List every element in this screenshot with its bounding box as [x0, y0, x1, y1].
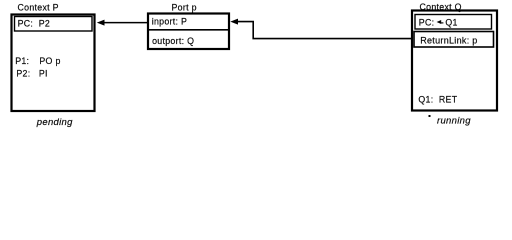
- svg-text:PC:: PC:: [18, 18, 34, 28]
- svg-text:PC:: PC:: [419, 17, 435, 27]
- svg-text:running: running: [437, 116, 471, 127]
- port p row divider: [148, 29, 229, 31]
- svg-text:Q1:: Q1:: [418, 94, 433, 104]
- wire returnlink to port p: [236, 22, 411, 39]
- svg-text:PI: PI: [39, 69, 48, 79]
- speck before running label: [429, 115, 431, 117]
- svg-text:outport: Q: outport: Q: [152, 36, 194, 46]
- svg-text:P1:: P1:: [15, 56, 29, 66]
- PC backward-arrow glyph: [437, 20, 442, 24]
- context Q box: [412, 11, 497, 111]
- context P box: [12, 15, 95, 112]
- svg-text:Q1: Q1: [445, 17, 457, 27]
- svg-text:inport: P: inport: P: [152, 17, 187, 27]
- svg-text:PO p: PO p: [39, 56, 60, 66]
- svg-text:pending: pending: [36, 117, 73, 128]
- svg-text:P2: P2: [39, 18, 50, 28]
- wire inport to context P: [100, 22, 147, 24]
- context Q PC row box: [415, 15, 492, 30]
- context P PC row box: [15, 17, 93, 32]
- svg-text:ReturnLink: p: ReturnLink: p: [420, 36, 477, 46]
- context Q ReturnLink row box: [414, 32, 494, 48]
- svg-text:RET: RET: [439, 94, 458, 104]
- arrowhead into port p: [230, 19, 238, 25]
- svg-text:P2:: P2:: [16, 69, 30, 79]
- svg-text:Context P: Context P: [18, 2, 59, 12]
- port p box: [148, 14, 229, 50]
- arrowhead into context P: [97, 20, 105, 26]
- svg-text:Port p: Port p: [172, 3, 197, 13]
